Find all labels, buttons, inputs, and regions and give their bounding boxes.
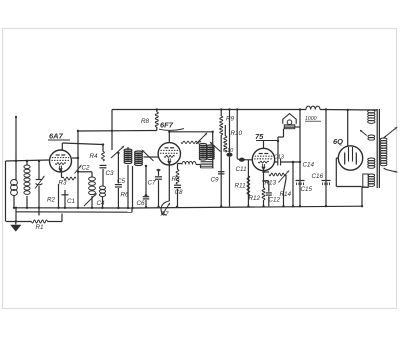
svg-text:C14: C14 bbox=[303, 162, 315, 169]
svg-text:R5: R5 bbox=[172, 176, 181, 183]
svg-text:C1: C1 bbox=[67, 198, 75, 205]
svg-text:R14: R14 bbox=[280, 191, 292, 198]
svg-text:R4: R4 bbox=[90, 153, 99, 160]
svg-text:6F7: 6F7 bbox=[160, 121, 174, 130]
svg-text:75: 75 bbox=[255, 132, 264, 141]
svg-text:R2: R2 bbox=[47, 197, 56, 204]
svg-text:C9: C9 bbox=[211, 177, 220, 184]
svg-text:R6: R6 bbox=[121, 192, 130, 199]
svg-text:R1: R1 bbox=[36, 224, 44, 231]
svg-text:R13: R13 bbox=[265, 179, 277, 186]
svg-text:C16: C16 bbox=[312, 173, 324, 180]
svg-text:C7: C7 bbox=[148, 180, 157, 187]
svg-text:R7: R7 bbox=[161, 211, 170, 218]
svg-text:C13: C13 bbox=[274, 155, 284, 161]
svg-text:R10: R10 bbox=[231, 130, 243, 137]
svg-text:C8: C8 bbox=[175, 189, 184, 196]
svg-text:C2: C2 bbox=[82, 165, 91, 172]
svg-text:6Q: 6Q bbox=[333, 137, 343, 146]
svg-text:C3: C3 bbox=[106, 170, 115, 177]
svg-text:6A7: 6A7 bbox=[49, 132, 64, 141]
svg-text:C15: C15 bbox=[301, 186, 313, 193]
svg-text:C10: C10 bbox=[223, 148, 234, 154]
svg-text:C6: C6 bbox=[137, 200, 146, 207]
svg-text:R8: R8 bbox=[141, 118, 150, 125]
svg-text:C4: C4 bbox=[97, 200, 106, 207]
svg-text:C5: C5 bbox=[117, 178, 126, 185]
svg-text:C11: C11 bbox=[236, 166, 247, 173]
svg-text:R11: R11 bbox=[235, 183, 246, 190]
svg-text:R3: R3 bbox=[59, 180, 68, 187]
svg-text:R12: R12 bbox=[249, 195, 261, 202]
svg-text:R9: R9 bbox=[226, 116, 235, 123]
